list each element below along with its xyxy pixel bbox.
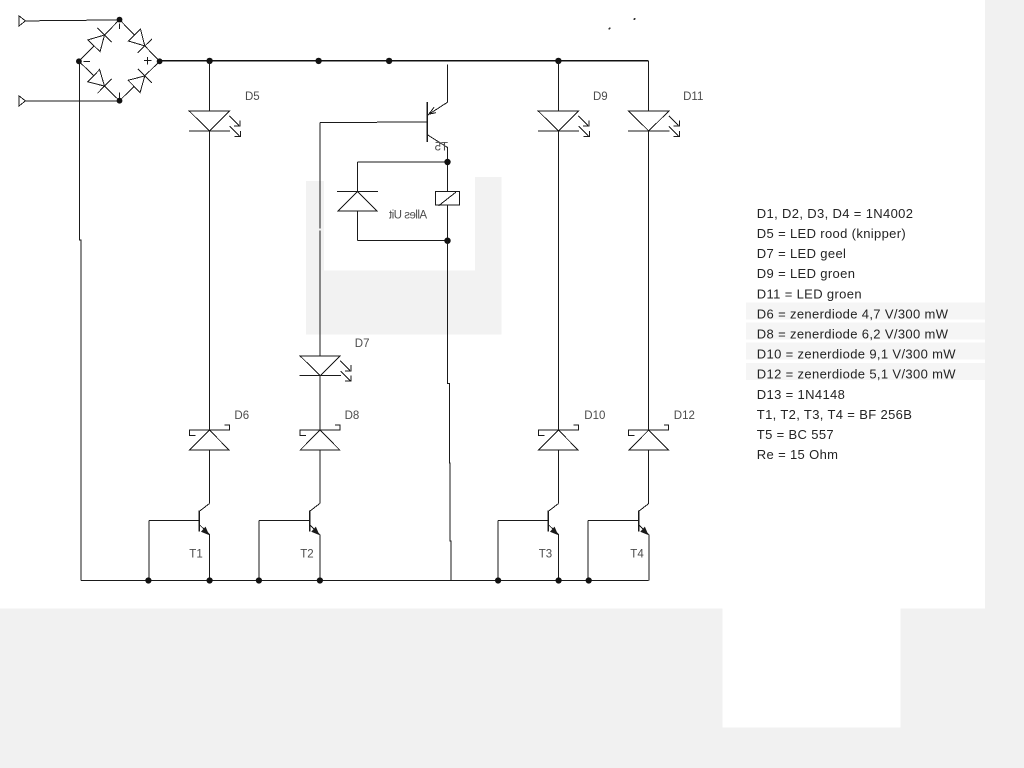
terminal AC input top bbox=[19, 16, 25, 26]
svg-text:T5: T5 bbox=[435, 141, 448, 153]
wire ground left rail bbox=[80, 62, 82, 581]
transistor T4 bbox=[588, 504, 649, 581]
zener diode D6 bbox=[189, 425, 229, 450]
LED D9 bbox=[538, 111, 590, 137]
bridge rectifier frame bbox=[79, 20, 160, 101]
diode D13 (flyback) bbox=[337, 192, 378, 211]
svg-text:T1, T2, T3, T4 = BF 256B: T1, T2, T3, T4 = BF 256B bbox=[757, 407, 912, 422]
wire bbox=[648, 131, 650, 430]
svg-text:D9 = LED groen: D9 = LED groen bbox=[757, 266, 855, 281]
transistor T1 bbox=[149, 504, 210, 581]
node plus bbox=[157, 58, 163, 64]
diode D1 bbox=[88, 28, 112, 52]
wire bbox=[358, 240, 445, 242]
svg-text:D1, D2, D3, D4 = 1N4002: D1, D2, D3, D4 = 1N4002 bbox=[757, 206, 914, 221]
svg-text:Re = 15 Ohm: Re = 15 Ohm bbox=[757, 447, 839, 462]
svg-text:T5 = BC 557: T5 = BC 557 bbox=[757, 427, 834, 442]
zener diode D12 bbox=[629, 425, 669, 450]
svg-text:T3: T3 bbox=[539, 549, 552, 561]
svg-text:D12: D12 bbox=[674, 410, 695, 422]
wire bbox=[447, 165, 449, 192]
svg-text:D10: D10 bbox=[584, 410, 605, 422]
wire bbox=[357, 211, 359, 241]
svg-text:T4: T4 bbox=[630, 549, 644, 561]
svg-text:D6: D6 bbox=[234, 410, 249, 422]
svg-text:D11 = LED groen: D11 = LED groen bbox=[757, 286, 862, 301]
parts list bbox=[757, 206, 956, 462]
wire T5 emitter bbox=[446, 65, 448, 103]
wire T5 collector bbox=[447, 148, 449, 162]
wire bbox=[25, 100, 119, 102]
wire bbox=[208, 450, 210, 504]
svg-text:D7 = LED geel: D7 = LED geel bbox=[757, 246, 846, 261]
diode D2 bbox=[128, 29, 152, 53]
wire bbox=[448, 241, 451, 581]
junction bbox=[586, 577, 592, 583]
svg-text:D7: D7 bbox=[355, 338, 370, 350]
svg-text:D10 = zenerdiode 9,1 V/300 mW: D10 = zenerdiode 9,1 V/300 mW bbox=[757, 347, 956, 362]
junction bbox=[207, 577, 213, 583]
LED D11 bbox=[628, 111, 680, 137]
wire bbox=[648, 61, 650, 111]
svg-text:D8 = zenerdiode 6,2 V/300 mW: D8 = zenerdiode 6,2 V/300 mW bbox=[757, 327, 949, 342]
wire bbox=[319, 450, 321, 504]
svg-text:D11: D11 bbox=[683, 91, 703, 103]
label minus bbox=[84, 60, 91, 62]
wire bbox=[208, 61, 210, 111]
wire bbox=[358, 161, 445, 163]
terminal AC input bottom bbox=[19, 96, 25, 106]
wire bbox=[319, 376, 321, 430]
svg-text:D8: D8 bbox=[345, 410, 360, 422]
wire bbox=[319, 123, 321, 356]
svg-text:D5 = LED rood (knipper): D5 = LED rood (knipper) bbox=[757, 226, 906, 241]
diode D4 bbox=[128, 69, 152, 93]
wire bbox=[357, 162, 359, 192]
svg-text:D6 = zenerdiode 4,7 V/300 mW: D6 = zenerdiode 4,7 V/300 mW bbox=[757, 306, 949, 321]
zener diode D8 bbox=[300, 425, 340, 450]
svg-text:D13 = 1N4148: D13 = 1N4148 bbox=[757, 387, 845, 402]
junction bbox=[444, 238, 450, 244]
LED D5 bbox=[189, 111, 241, 137]
diode D3 bbox=[88, 70, 112, 94]
LED D7 bbox=[300, 356, 352, 382]
svg-text:Alles Uit: Alles Uit bbox=[388, 210, 427, 222]
junction bbox=[555, 58, 561, 64]
node minus bbox=[76, 58, 82, 64]
svg-text:D5: D5 bbox=[245, 91, 260, 103]
wire V+ top rail bbox=[160, 60, 649, 62]
zener diode D10 bbox=[538, 425, 578, 450]
svg-text:T2: T2 bbox=[300, 549, 313, 561]
node AC top bbox=[117, 17, 123, 23]
transistor T5 bbox=[427, 102, 447, 148]
svg-text:T1: T1 bbox=[189, 549, 202, 561]
relay Re coil bbox=[435, 192, 459, 206]
svg-text:D12 = zenerdiode 5,1 V/300 mW: D12 = zenerdiode 5,1 V/300 mW bbox=[757, 367, 956, 382]
wire T5 base bbox=[320, 121, 427, 124]
junction bbox=[444, 159, 450, 165]
junction bbox=[495, 577, 501, 583]
wire bbox=[25, 20, 119, 21]
junction bbox=[556, 577, 562, 583]
transistor T2 bbox=[259, 504, 320, 581]
wire bbox=[648, 450, 650, 504]
junction bbox=[317, 577, 323, 583]
svg-text:D9: D9 bbox=[593, 91, 608, 103]
wire ground bottom rail bbox=[81, 580, 649, 582]
node AC bottom bbox=[117, 98, 123, 104]
junction bbox=[315, 58, 321, 64]
junction bbox=[256, 577, 262, 583]
wire bbox=[447, 205, 449, 241]
junction bbox=[386, 58, 392, 64]
wire bbox=[557, 450, 559, 504]
junction bbox=[145, 577, 151, 583]
wire bbox=[557, 61, 559, 111]
wire bbox=[208, 131, 210, 430]
transistor T3 bbox=[498, 504, 559, 581]
wire bbox=[557, 131, 559, 430]
junction bbox=[206, 58, 212, 64]
label plus bbox=[144, 57, 152, 65]
